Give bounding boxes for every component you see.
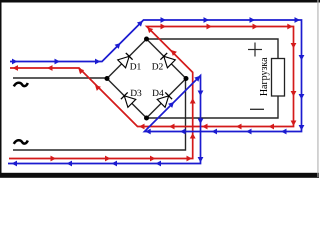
label minus terminal	[250, 108, 264, 110]
wire bridge diamond edges	[107, 39, 186, 118]
diode D2	[160, 53, 175, 68]
diode D3	[121, 92, 136, 107]
wire DC output plus: top node to load top	[147, 39, 279, 59]
wire red current path	[9, 27, 294, 159]
load resistor box	[272, 59, 285, 97]
wire AC input bottom (from ~ terminal up to right node)	[13, 79, 186, 151]
svg-text:D3: D3	[130, 89, 142, 99]
svg-text:Нагрузка: Нагрузка	[259, 57, 270, 96]
node top (DC plus)	[144, 37, 149, 42]
AC source tilde top	[14, 83, 28, 87]
svg-text:D2: D2	[152, 62, 164, 72]
red current arrows	[13, 24, 297, 162]
border frame left	[0, 0, 2, 178]
svg-text:D1: D1	[130, 62, 142, 72]
wire AC input top (from ~ terminal to left node)	[13, 77, 107, 79]
border frame bottom	[0, 173, 319, 178]
node left (AC)	[105, 76, 110, 81]
diode D4	[157, 92, 172, 107]
svg-text:D4: D4	[152, 89, 164, 99]
blue current arrows	[12, 17, 305, 166]
node bottom (DC minus)	[144, 116, 149, 121]
AC source tilde bottom	[14, 140, 28, 144]
wire blue current path	[8, 20, 302, 164]
border frame top	[0, 0, 320, 3]
wire DC output minus: load bottom to bottom node	[147, 96, 279, 118]
border frame right	[317, 0, 318, 177]
diode D1	[118, 53, 133, 68]
label plus terminal	[248, 43, 262, 57]
node right (AC)	[184, 76, 189, 81]
